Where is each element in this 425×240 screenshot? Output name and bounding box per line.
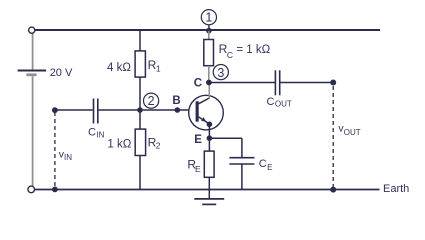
capacitor CIN bbox=[94, 99, 98, 124]
capacitor COUT bbox=[275, 70, 279, 95]
node 1 bbox=[201, 10, 216, 25]
junction vout bottom bbox=[330, 187, 336, 193]
wire RC bottom lead gray bbox=[208, 66, 210, 83]
terminal bottom-left bbox=[28, 186, 35, 193]
wire collector lead gray bbox=[208, 83, 210, 99]
svg-text:4 kΩ: 4 kΩ bbox=[107, 62, 131, 74]
node 2 bbox=[144, 93, 159, 108]
node 3 bbox=[213, 65, 228, 80]
wire emitter lead bbox=[208, 124, 210, 151]
wire node1 to bus bbox=[208, 25, 210, 31]
svg-text:2: 2 bbox=[156, 141, 161, 151]
wire CE top lead bbox=[241, 138, 243, 157]
svg-text:Earth: Earth bbox=[383, 183, 409, 195]
junction base R1R2 bbox=[137, 107, 143, 113]
junction emitter CE branch bbox=[207, 135, 213, 141]
ground bbox=[194, 199, 224, 205]
label RC = 1 kOhm bbox=[219, 42, 271, 60]
svg-text:C: C bbox=[194, 78, 202, 90]
battery 20V bbox=[18, 71, 46, 75]
svg-text:E: E bbox=[195, 164, 201, 174]
wire CE branch horizontal bbox=[209, 137, 242, 139]
wire left rail upper bbox=[32, 33, 34, 69]
wire Cout to vout node bbox=[280, 82, 333, 84]
svg-text:OUT: OUT bbox=[344, 128, 361, 137]
wire RC top lead gray bbox=[208, 31, 210, 40]
junction top bus RC bbox=[206, 28, 212, 34]
svg-text:IN: IN bbox=[96, 130, 104, 139]
svg-text:IN: IN bbox=[64, 153, 72, 162]
probe vout dashed bbox=[332, 86, 334, 187]
svg-text:C: C bbox=[227, 50, 233, 60]
junction emitter E bbox=[207, 122, 213, 128]
wire R1 top lead bbox=[139, 31, 141, 51]
wire Cin to base bar bbox=[99, 109, 196, 111]
resistor RC bbox=[204, 40, 214, 66]
svg-text:3: 3 bbox=[217, 66, 224, 80]
junction vin top bbox=[52, 107, 58, 113]
svg-text:2: 2 bbox=[148, 94, 155, 108]
svg-text:OUT: OUT bbox=[275, 100, 292, 109]
wire base left segment bbox=[55, 109, 93, 111]
resistor R1 bbox=[135, 51, 145, 77]
probe vin dashed bbox=[54, 112, 56, 187]
junction vin bottom bbox=[52, 187, 58, 193]
capacitor CE bbox=[229, 158, 254, 164]
resistor R2 bbox=[135, 129, 145, 155]
wire RE bottom lead bbox=[208, 177, 210, 199]
wire collector to Cout bbox=[209, 82, 275, 84]
svg-text:1: 1 bbox=[156, 63, 161, 73]
svg-text:E: E bbox=[267, 163, 272, 172]
wire left rail lower bbox=[32, 76, 34, 186]
terminal top-left bbox=[29, 27, 35, 33]
svg-text:20 V: 20 V bbox=[50, 67, 73, 79]
svg-text:C: C bbox=[88, 127, 96, 139]
wire earth bus bbox=[34, 189, 379, 191]
svg-text:= 1 kΩ: = 1 kΩ bbox=[236, 44, 270, 56]
wire R1 bottom lead bbox=[139, 77, 141, 110]
wire R2 top lead bbox=[139, 110, 141, 129]
wire top supply bus bbox=[35, 29, 380, 31]
wire CE bottom lead bbox=[241, 164, 243, 189]
svg-text:1: 1 bbox=[205, 10, 212, 24]
svg-text:E: E bbox=[194, 134, 202, 146]
svg-text:C: C bbox=[267, 96, 275, 108]
transistor Q1 bbox=[189, 95, 224, 130]
junction base B bbox=[175, 107, 181, 113]
junction collector bbox=[206, 80, 212, 86]
resistor RE bbox=[204, 151, 214, 177]
svg-text:C: C bbox=[259, 158, 267, 170]
junction vout top bbox=[330, 80, 336, 86]
svg-text:B: B bbox=[172, 95, 180, 107]
wire R2 bottom lead bbox=[139, 156, 141, 190]
svg-text:1 kΩ: 1 kΩ bbox=[107, 138, 131, 150]
